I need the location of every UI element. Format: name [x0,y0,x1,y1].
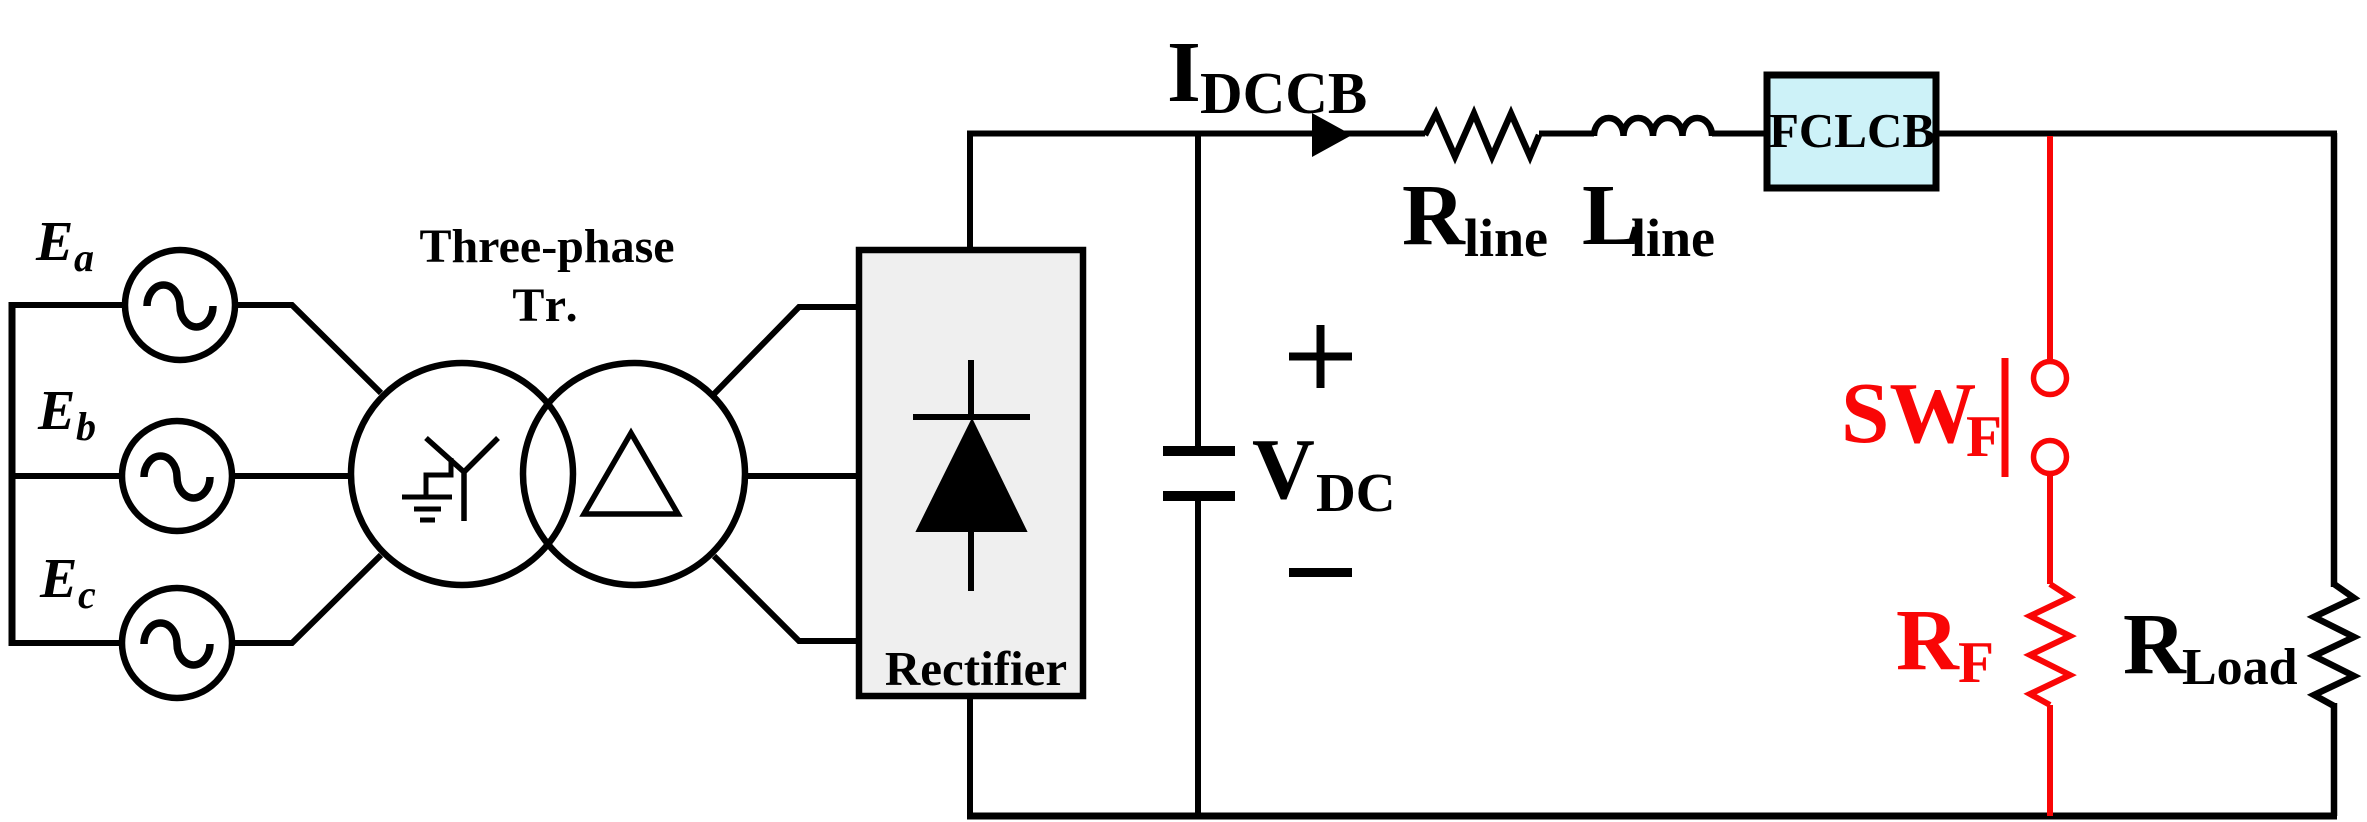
AC source Eb [122,421,232,531]
svg-text:c: c [78,572,96,617]
svg-text:R: R [1896,591,1960,688]
svg-text:line: line [1464,208,1548,268]
wire capacitor branch bottom [1195,500,1201,816]
FCLCB box [1767,75,1936,188]
wire phase c right + diagonal to transformer [232,555,381,643]
current arrow [1312,113,1352,157]
wire switch to resistor [2047,473,2053,584]
wire phase a right + diagonal to transformer [236,305,381,393]
svg-text:E: E [39,548,77,610]
svg-text:E: E [37,380,75,442]
wire top bus [967,131,2337,137]
wire capacitor branch top [1195,133,1201,447]
wire bottom bus [967,813,2337,820]
wire left vertical rail [9,302,16,646]
transformer secondary circle [523,363,745,585]
svg-text:V: V [1252,420,1315,517]
svg-text:line: line [1631,208,1715,268]
plus sign [1289,325,1352,388]
svg-text:R: R [2123,595,2187,692]
wire rectifier bottom drop [967,697,973,816]
ground [402,458,452,520]
svg-text:a: a [74,235,94,280]
svg-text:Load: Load [2182,639,2298,696]
svg-text:b: b [76,404,96,449]
svg-text:F: F [1966,403,2002,469]
red fault branch wire from top bus [2047,136,2053,361]
svg-text:Three-phase: Three-phase [419,220,674,273]
capacitor C1 plates [1163,451,1235,496]
svg-text:I: I [1167,23,1201,120]
wire phase c horizontal left [9,640,122,646]
wye symbol [426,438,498,521]
rectifier U1 box [859,250,1083,696]
svg-text:Tr.: Tr. [512,279,581,332]
svg-text:F: F [1958,629,1994,695]
minus sign [1289,568,1352,577]
svg-text:DCCB: DCCB [1200,60,1367,126]
resistor R_line [1425,114,1539,157]
wire phase b right to transformer [232,473,350,479]
wire phase a horizontal left [9,302,124,308]
svg-text:E: E [35,211,73,273]
switch lever bar [2002,358,2009,477]
wire rectifier top riser [967,133,973,250]
AC source Ec [122,588,232,698]
svg-text:DC: DC [1316,462,1395,523]
resistor R_Load [2314,584,2354,706]
AC source Ea [125,250,235,360]
svg-text:SW: SW [1841,364,1976,461]
resistor R_F [2030,584,2070,705]
svg-text:Rectifier: Rectifier [885,641,1067,696]
svg-text:R: R [1402,166,1466,263]
delta symbol [584,433,678,514]
diode D1 [913,360,1030,591]
switch SW_F contact bottom [2034,441,2067,474]
wire transformer to rectifier top [714,307,858,394]
wire transformer to rectifier middle [744,473,858,479]
wire right rail [2331,133,2338,816]
svg-text:FCLCB: FCLCB [1769,103,1935,158]
transformer primary circle [351,363,573,585]
wire phase b horizontal left [9,473,122,479]
wire R_F to bottom bus [2047,705,2053,816]
wire transformer to rectifier bottom [714,556,858,641]
inductor L_line [1594,118,1712,136]
switch SW_F contact top [2034,362,2067,395]
